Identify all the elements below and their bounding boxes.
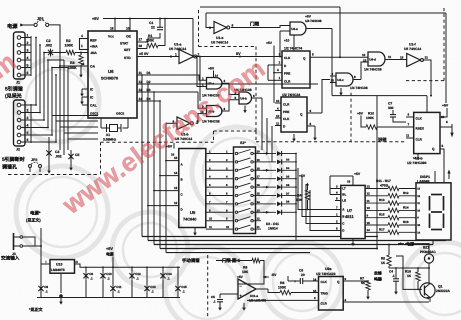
resistor R2 — [54, 52, 66, 54]
capacitor C15 — [177, 267, 179, 284]
node U5 pin 12 — [148, 205, 179, 207]
capacitor C2 — [44, 52, 47, 54]
wire +5V drop x193 — [192, 19, 194, 57]
and-gate U4-c — [336, 73, 353, 86]
resistor R11 — [365, 188, 388, 190]
wire D-line runs — [148, 75, 199, 78]
wire dashed shield boundaries — [198, 10, 200, 47]
capacitor C5 — [70, 150, 72, 163]
resistor R17 — [365, 231, 388, 233]
resistor R15 — [365, 217, 388, 219]
diode D5 — [277, 176, 282, 181]
node OA pin2 — [60, 65, 88, 67]
wire U1-e out — [231, 26, 290, 28]
wire R5 drop — [388, 245, 390, 256]
resistor R13 — [365, 202, 388, 204]
resistor R6 — [216, 260, 252, 262]
wire staircase to tuner — [52, 115, 98, 117]
wire dashed fold line — [207, 255, 209, 318]
capacitor C10 — [102, 267, 104, 272]
capacitor C13 — [146, 267, 148, 284]
node SET pin16 — [137, 48, 147, 50]
diode D6 — [277, 185, 282, 190]
node IC pins — [82, 88, 88, 90]
diode D2 — [277, 151, 282, 156]
wire bus lines — [142, 236, 341, 238]
node U7 pin 5 LE — [335, 200, 341, 202]
connector J3 AC plug — [13, 233, 15, 250]
and-gate U4-a — [290, 22, 306, 35]
capacitor C5b — [219, 294, 221, 298]
wire bundle J1/J2 crossings — [35, 38, 37, 106]
inverter U1-e — [214, 22, 227, 34]
node D1-D4 outputs — [137, 74, 148, 76]
node U7 pin 2 C — [335, 223, 341, 225]
diode D4 — [277, 168, 282, 173]
wire collector node row — [389, 267, 429, 269]
capacitor C12 — [131, 267, 133, 272]
node U7 pin 4 BL — [335, 194, 341, 196]
node U7 pin 1 B — [335, 216, 341, 218]
resistor R3 — [80, 53, 82, 56]
node U5 pin 14 — [160, 175, 179, 177]
node U5 pin 13 — [154, 190, 179, 192]
wire dashed boundary bottom-left — [8, 174, 97, 176]
wire into U8 — [332, 95, 427, 97]
ground rail — [37, 297, 180, 299]
node U7 pin 3 LT — [335, 188, 341, 190]
capacitor C3 — [48, 137, 50, 166]
wire base feed — [396, 256, 422, 289]
op-amp U11 LM1458 — [238, 279, 256, 299]
resistor R16 — [365, 224, 388, 226]
decoder U7 4511 — [341, 185, 365, 238]
wire U1-a output 0V run — [195, 56, 282, 58]
wire DISP feed right — [445, 240, 447, 242]
wire arrows at S1 outputs — [263, 153, 269, 155]
wire S1 column verticals — [266, 118, 268, 154]
wire AC input — [23, 237, 35, 246]
node REF loop — [80, 39, 89, 50]
node U7 pin 6 D — [335, 230, 341, 232]
node U5 pin 15 — [166, 160, 179, 162]
counter U8-b 74HC390 — [414, 112, 440, 153]
resistor R12 — [365, 195, 388, 197]
diode D8 — [277, 202, 282, 207]
capacitor C14 — [162, 267, 164, 272]
node U7 pin 7 A — [335, 209, 341, 211]
node STD output — [137, 56, 179, 58]
wire JP1 to node — [49, 25, 60, 53]
wire BCD feeds — [298, 168, 335, 210]
wire J2 rows to mid verticals — [59, 53, 61, 151]
connector J2 — [14, 100, 26, 146]
node STAT pin17 — [137, 41, 148, 43]
inverter U1-b — [177, 117, 190, 130]
op-amp U6 SCH9B70 main IC — [88, 31, 137, 118]
connector J1 — [14, 32, 26, 79]
wire vertical feeds to bus — [141, 75, 143, 237]
capacitor C11 — [112, 267, 114, 284]
wire oscillator loop — [206, 13, 214, 28]
resistor R14 — [365, 209, 388, 211]
wire S1 to diodes — [261, 153, 276, 155]
capacitor C1 — [148, 33, 160, 42]
wire arrow to 电源 — [20, 24, 34, 26]
wire U5 outputs to S1 — [206, 153, 234, 155]
capacitor C9 — [85, 267, 87, 272]
regulator U10 LM340T5 — [50, 260, 75, 274]
transistor Q1 2N2222A — [420, 283, 435, 298]
wire branches to U3 gates — [197, 57, 207, 87]
diode D9 — [277, 210, 282, 215]
ground at U10 — [60, 273, 62, 293]
capacitor C8 — [40, 267, 42, 284]
diode D3 — [277, 160, 282, 165]
and-gate U3-b — [207, 106, 223, 117]
diode D7 — [277, 193, 282, 198]
